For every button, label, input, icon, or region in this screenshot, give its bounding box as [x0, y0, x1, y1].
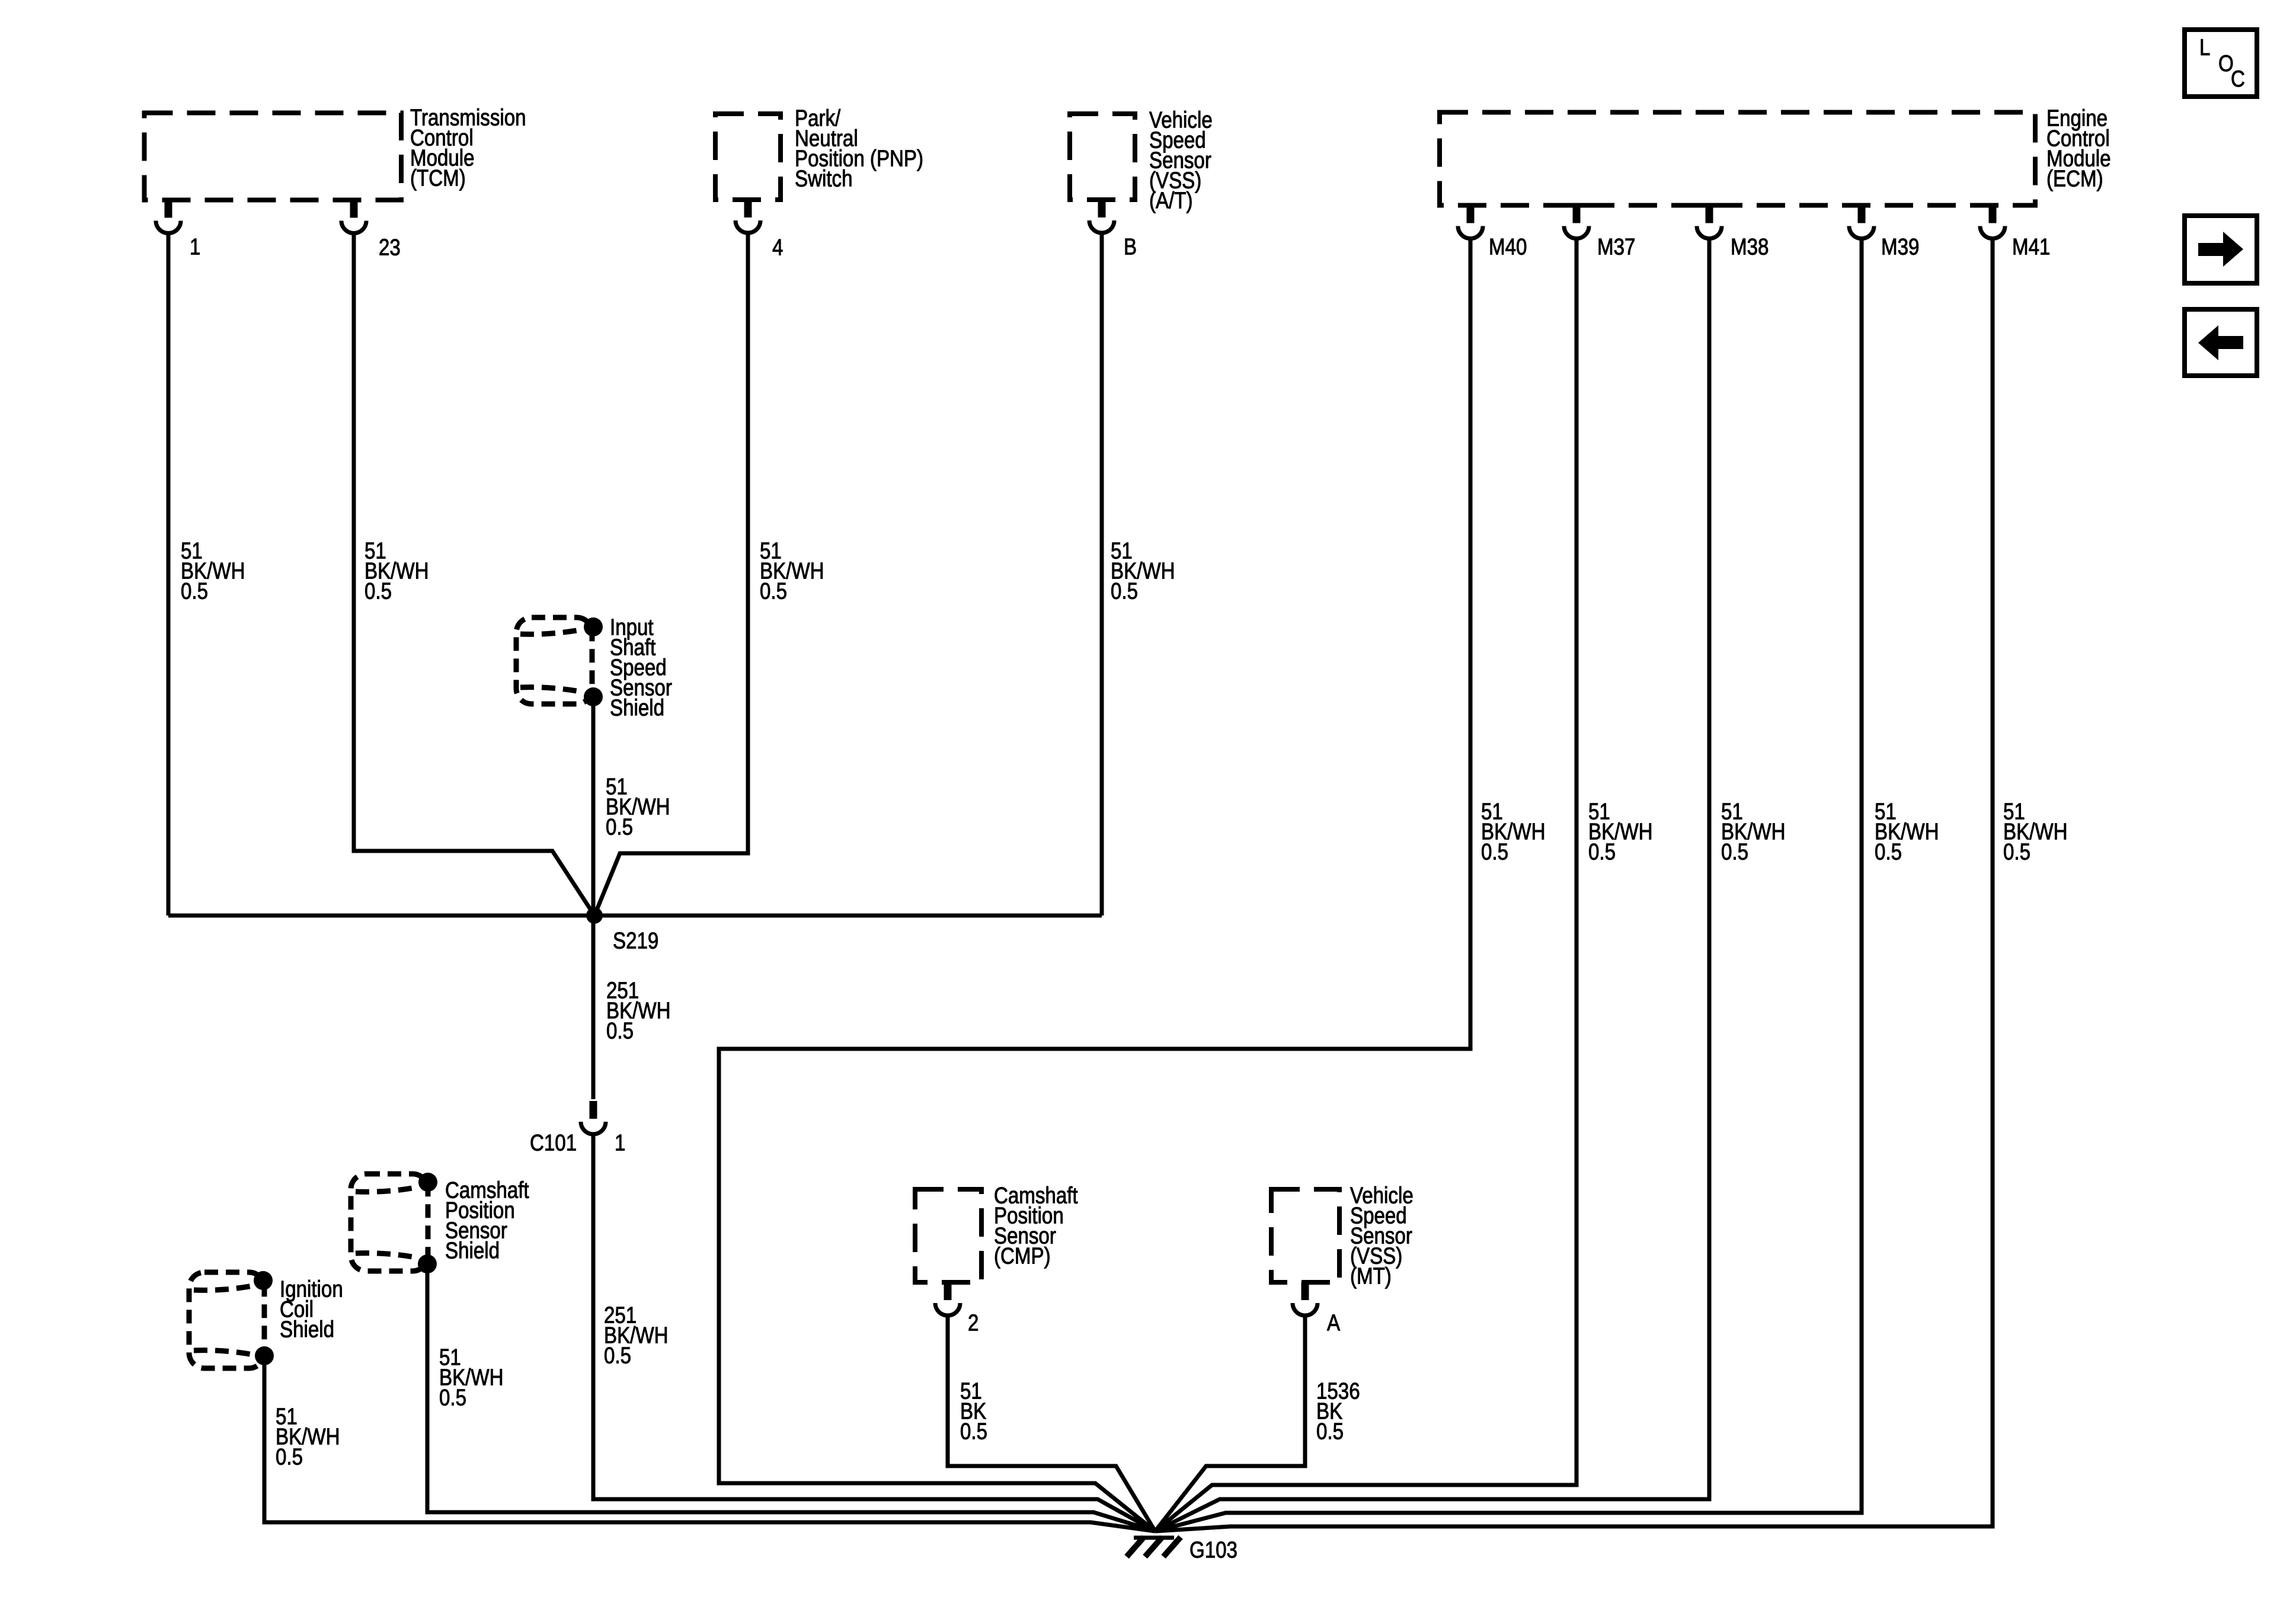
Camshaft Position Sensor Shield [351, 1173, 437, 1273]
svg-text:S219: S219 [613, 928, 658, 953]
label CMP [994, 1183, 1078, 1269]
wire label 51 BK/WH 0.5 (ignition shield) [276, 1404, 340, 1470]
svg-text:1: 1 [190, 234, 200, 260]
svg-text:M37: M37 [1597, 234, 1635, 260]
svg-text:0.5: 0.5 [1481, 839, 1508, 865]
wire TCM pin1 to S219 bus [167, 234, 171, 916]
svg-text:B: B [1124, 234, 1137, 260]
Park/Neutral Position (PNP) Switch box [715, 114, 781, 200]
wire label 51 BK/WH 0.5 (camshaft shield) [439, 1345, 503, 1410]
wire label 51 BK 0.5 (CMP) [960, 1378, 987, 1444]
wire label 251 BK/WH 0.5 (S219 to C101) [606, 978, 670, 1044]
svg-text:Shield: Shield [610, 695, 664, 721]
ECM pin M38 connector [1697, 206, 1722, 239]
wire label 51 BK/WH 0.5 (M41) [2003, 799, 2067, 865]
ground G103 symbol [1127, 1537, 1181, 1557]
wire label 51 BK/WH 0.5 (PNP) [760, 538, 824, 604]
VSS MT pin A connector [1293, 1282, 1318, 1315]
wire label 51 BK/WH 0.5 (TCM pin23) [364, 538, 428, 604]
svg-text:0.5: 0.5 [606, 814, 633, 840]
svg-text:(ECM): (ECM) [2046, 166, 2103, 191]
Vehicle Speed Sensor (VSS) (A/T) box [1070, 114, 1135, 200]
label PNP switch [795, 105, 923, 191]
label VSS A/T [1149, 107, 1213, 213]
svg-text:2: 2 [968, 1310, 978, 1336]
Camshaft Position Sensor (CMP) box [915, 1189, 981, 1282]
CMP pin 2 connector [935, 1282, 960, 1315]
svg-text:Shield: Shield [445, 1238, 500, 1263]
svg-text:0.5: 0.5 [1875, 839, 1902, 865]
svg-text:C101: C101 [530, 1130, 577, 1156]
Ignition Coil Shield [189, 1271, 274, 1368]
svg-text:Shield: Shield [280, 1317, 334, 1342]
svg-text:1: 1 [615, 1130, 625, 1156]
left arrow navigation box [2185, 309, 2257, 376]
PNP pin 4 connector [736, 200, 760, 233]
svg-text:(MT): (MT) [1350, 1263, 1392, 1289]
svg-text:L: L [2199, 35, 2210, 60]
label VSS MT [1350, 1183, 1414, 1289]
right arrow navigation box [2185, 216, 2257, 283]
wire label 51 BK/WH 0.5 (M38) [1721, 799, 1785, 865]
svg-text:C: C [2231, 66, 2245, 92]
Engine Control Module (ECM) box [1440, 113, 2035, 206]
wire VSS A/T pinB down to bus [1100, 233, 1104, 916]
label Ignition Coil Shield [280, 1276, 343, 1342]
wire label 251 BK/WH 0.5 (C101 to G103) [604, 1302, 668, 1368]
TCM pin 1 connector [156, 200, 181, 233]
wire label 51 BK/WH 0.5 (TCM pin1) [181, 538, 245, 604]
wire label 51 BK/WH 0.5 (VSS A/T) [1111, 538, 1175, 604]
svg-text:0.5: 0.5 [181, 578, 208, 604]
svg-text:M41: M41 [2012, 234, 2050, 260]
svg-text:0.5: 0.5 [2003, 839, 2030, 865]
ECM pin M37 connector [1564, 206, 1589, 239]
svg-text:0.5: 0.5 [606, 1018, 634, 1044]
svg-text:0.5: 0.5 [760, 578, 787, 604]
wire Camshaft shield to G103 [427, 1264, 1155, 1531]
wire VSS MT pinA to G103 [1155, 1315, 1305, 1531]
svg-text:0.5: 0.5 [1721, 839, 1748, 865]
wire TCM pin23 to S219 [354, 234, 594, 916]
Vehicle Speed Sensor (VSS) (MT) box [1271, 1189, 1339, 1282]
svg-text:M38: M38 [1731, 234, 1769, 260]
ECM pin M40 connector [1458, 206, 1483, 239]
wire PNP pin4 to S219 [594, 233, 748, 916]
label TCM [410, 105, 526, 191]
TCM pin 23 connector [341, 200, 366, 233]
svg-text:(TCM): (TCM) [410, 165, 466, 191]
LOC legend box [2185, 30, 2257, 97]
svg-text:0.5: 0.5 [960, 1419, 987, 1444]
Transmission Control Module (TCM) box [145, 113, 402, 200]
ECM pin M39 connector [1849, 206, 1874, 239]
svg-text:4: 4 [772, 235, 783, 260]
wire ECM M37 to G103 [1155, 239, 1576, 1531]
wire ECM M41 to G103 [1155, 239, 1993, 1531]
svg-text:(A/T): (A/T) [1149, 188, 1193, 213]
wire label 51 BK/WH 0.5 (M39) [1875, 799, 1939, 865]
svg-text:0.5: 0.5 [276, 1444, 303, 1470]
wire Input shield to S219 [591, 697, 596, 916]
splice S219 [586, 907, 603, 924]
wire ECM M40 to G103 [719, 239, 1470, 1531]
wire ECM M38 to G103 [1155, 239, 1709, 1531]
svg-text:0.5: 0.5 [439, 1385, 466, 1410]
wire label 51 BK/WH 0.5 (M40) [1481, 799, 1545, 865]
wire label 51 BK/WH 0.5 (shield drain) [606, 774, 670, 840]
svg-text:0.5: 0.5 [1111, 578, 1138, 604]
label Input Shaft Speed Sensor Shield [610, 614, 672, 721]
svg-text:A: A [1327, 1310, 1340, 1336]
Input Shaft Speed Sensor Shield [516, 617, 603, 706]
label ECM [2046, 105, 2111, 191]
ECM pin M41 connector [1980, 206, 2005, 239]
wire label 51 BK/WH 0.5 (M37) [1588, 799, 1652, 865]
wire label 1536 BK 0.5 (VSS MT) [1316, 1378, 1360, 1444]
svg-text:G103: G103 [1189, 1537, 1237, 1563]
label Camshaft Position Sensor Shield [445, 1177, 529, 1263]
wire S219 to C101 [591, 916, 596, 1099]
wire ECM M39 to G103 [1155, 239, 1862, 1531]
wire S219 bus horizontal [168, 914, 1102, 918]
svg-text:Switch: Switch [795, 166, 852, 191]
wire CMP pin2 to G103 [948, 1315, 1155, 1531]
connector C101 pin 1 [581, 1101, 606, 1134]
wire C101 to G103 [593, 1134, 1155, 1531]
svg-text:M39: M39 [1881, 234, 1919, 260]
svg-text:0.5: 0.5 [364, 578, 392, 604]
svg-text:M40: M40 [1489, 234, 1527, 260]
svg-text:0.5: 0.5 [1588, 839, 1616, 865]
svg-text:(CMP): (CMP) [994, 1243, 1051, 1269]
svg-text:0.5: 0.5 [604, 1343, 631, 1368]
VSS A/T pin B connector [1089, 200, 1114, 233]
svg-text:0.5: 0.5 [1316, 1419, 1344, 1444]
svg-text:23: 23 [379, 235, 401, 260]
wire Ignition shield to G103 [264, 1356, 1155, 1531]
